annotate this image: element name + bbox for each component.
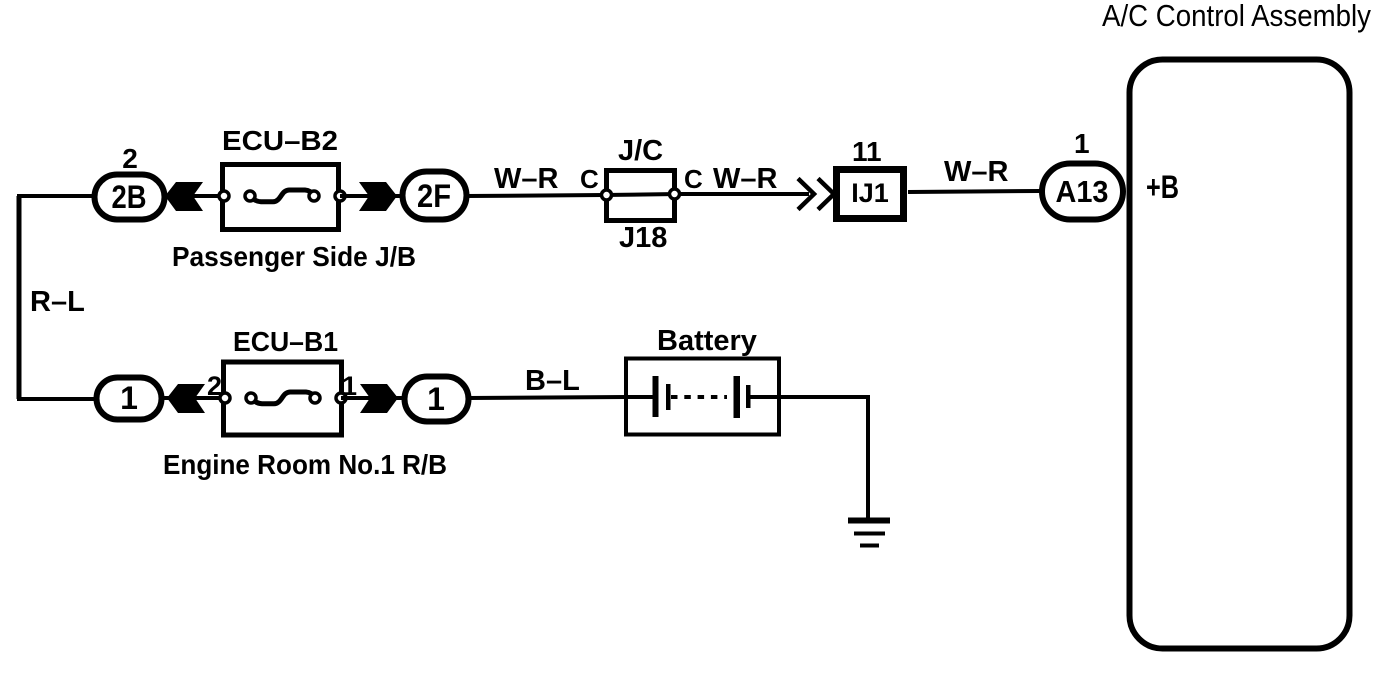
junction IJ1 box (837, 170, 904, 219)
svg-text:ECU–B2: ECU–B2 (222, 125, 338, 156)
svg-text:R–L: R–L (30, 286, 85, 318)
wire oval1 to battery with B-L label (468, 397, 626, 398)
J/C terminal circles (602, 190, 612, 200)
wire oval1 to fuse ECU-B1 (162, 396, 226, 400)
Battery box (626, 359, 779, 435)
svg-text:J18: J18 (619, 222, 667, 254)
svg-text:1: 1 (120, 380, 138, 416)
svg-text:A/C Control Assembly: A/C Control Assembly (1102, 0, 1371, 33)
svg-text:2F: 2F (417, 178, 451, 214)
svg-text:J/C: J/C (618, 135, 663, 167)
fuse terminal circles (219, 191, 229, 201)
svg-text:1: 1 (1074, 128, 1090, 159)
svg-text:Passenger Side J/B: Passenger Side J/B (172, 241, 416, 272)
junction connector J/C box (607, 171, 675, 221)
svg-text:2: 2 (122, 143, 138, 174)
svg-text:A13: A13 (1056, 174, 1109, 209)
battery cell plates (626, 395, 653, 399)
wire through J/C (604, 194, 678, 195)
svg-text:C: C (684, 164, 703, 194)
arrow (male connector, points right) (359, 182, 397, 211)
fuse element wavy line (251, 392, 316, 404)
svg-text:Engine Room No.1 R/B: Engine Room No.1 R/B (163, 449, 447, 480)
connector 1 oval (right) (405, 377, 469, 422)
svg-text:11: 11 (852, 136, 882, 167)
fuse ECU-B2 box (223, 165, 339, 230)
connector A13 oval (1042, 164, 1123, 220)
fuse ECU-B1 box (224, 362, 342, 435)
fuse terminal circles (220, 393, 230, 403)
svg-text:2B: 2B (112, 179, 147, 215)
wire bottom-left horizontal (17, 397, 96, 401)
arrow (male connector, points right) (360, 384, 398, 413)
wire 2F to J/C with W-R label (466, 195, 604, 196)
connector 1 oval (left) (97, 378, 162, 420)
svg-text:W–R: W–R (944, 156, 1009, 188)
wire battery to ground (779, 397, 868, 519)
wire fuse to right oval 1 (341, 396, 402, 400)
fuse element wavy line (250, 190, 315, 202)
svg-text:IJ1: IJ1 (851, 178, 889, 208)
ground symbol (848, 518, 890, 524)
wire left vertical R-L (17, 196, 22, 399)
svg-text:W–R: W–R (713, 163, 778, 195)
wire 2B to fuse box (165, 194, 224, 198)
chevron splice marks (798, 179, 834, 210)
wire top-left horizontal (17, 194, 95, 198)
A/C Control Assembly box (1130, 60, 1350, 649)
wire J/C to IJ1 with W-R label (678, 192, 809, 196)
svg-text:1: 1 (427, 381, 445, 417)
svg-text:Battery: Battery (657, 325, 757, 357)
connector 2F oval (403, 172, 467, 220)
arrow (female connector, points left) (165, 182, 203, 211)
svg-text:B–L: B–L (525, 365, 580, 397)
connector 2B oval (95, 175, 165, 220)
wire fuse box to 2F (340, 194, 400, 198)
arrow (female connector, points left) (167, 384, 205, 413)
svg-text:+B: +B (1146, 169, 1179, 205)
svg-text:ECU–B1: ECU–B1 (233, 326, 338, 357)
svg-text:C: C (580, 164, 599, 194)
svg-text:W–R: W–R (494, 163, 559, 195)
wire IJ1 to A13 with W-R label (908, 191, 1040, 192)
